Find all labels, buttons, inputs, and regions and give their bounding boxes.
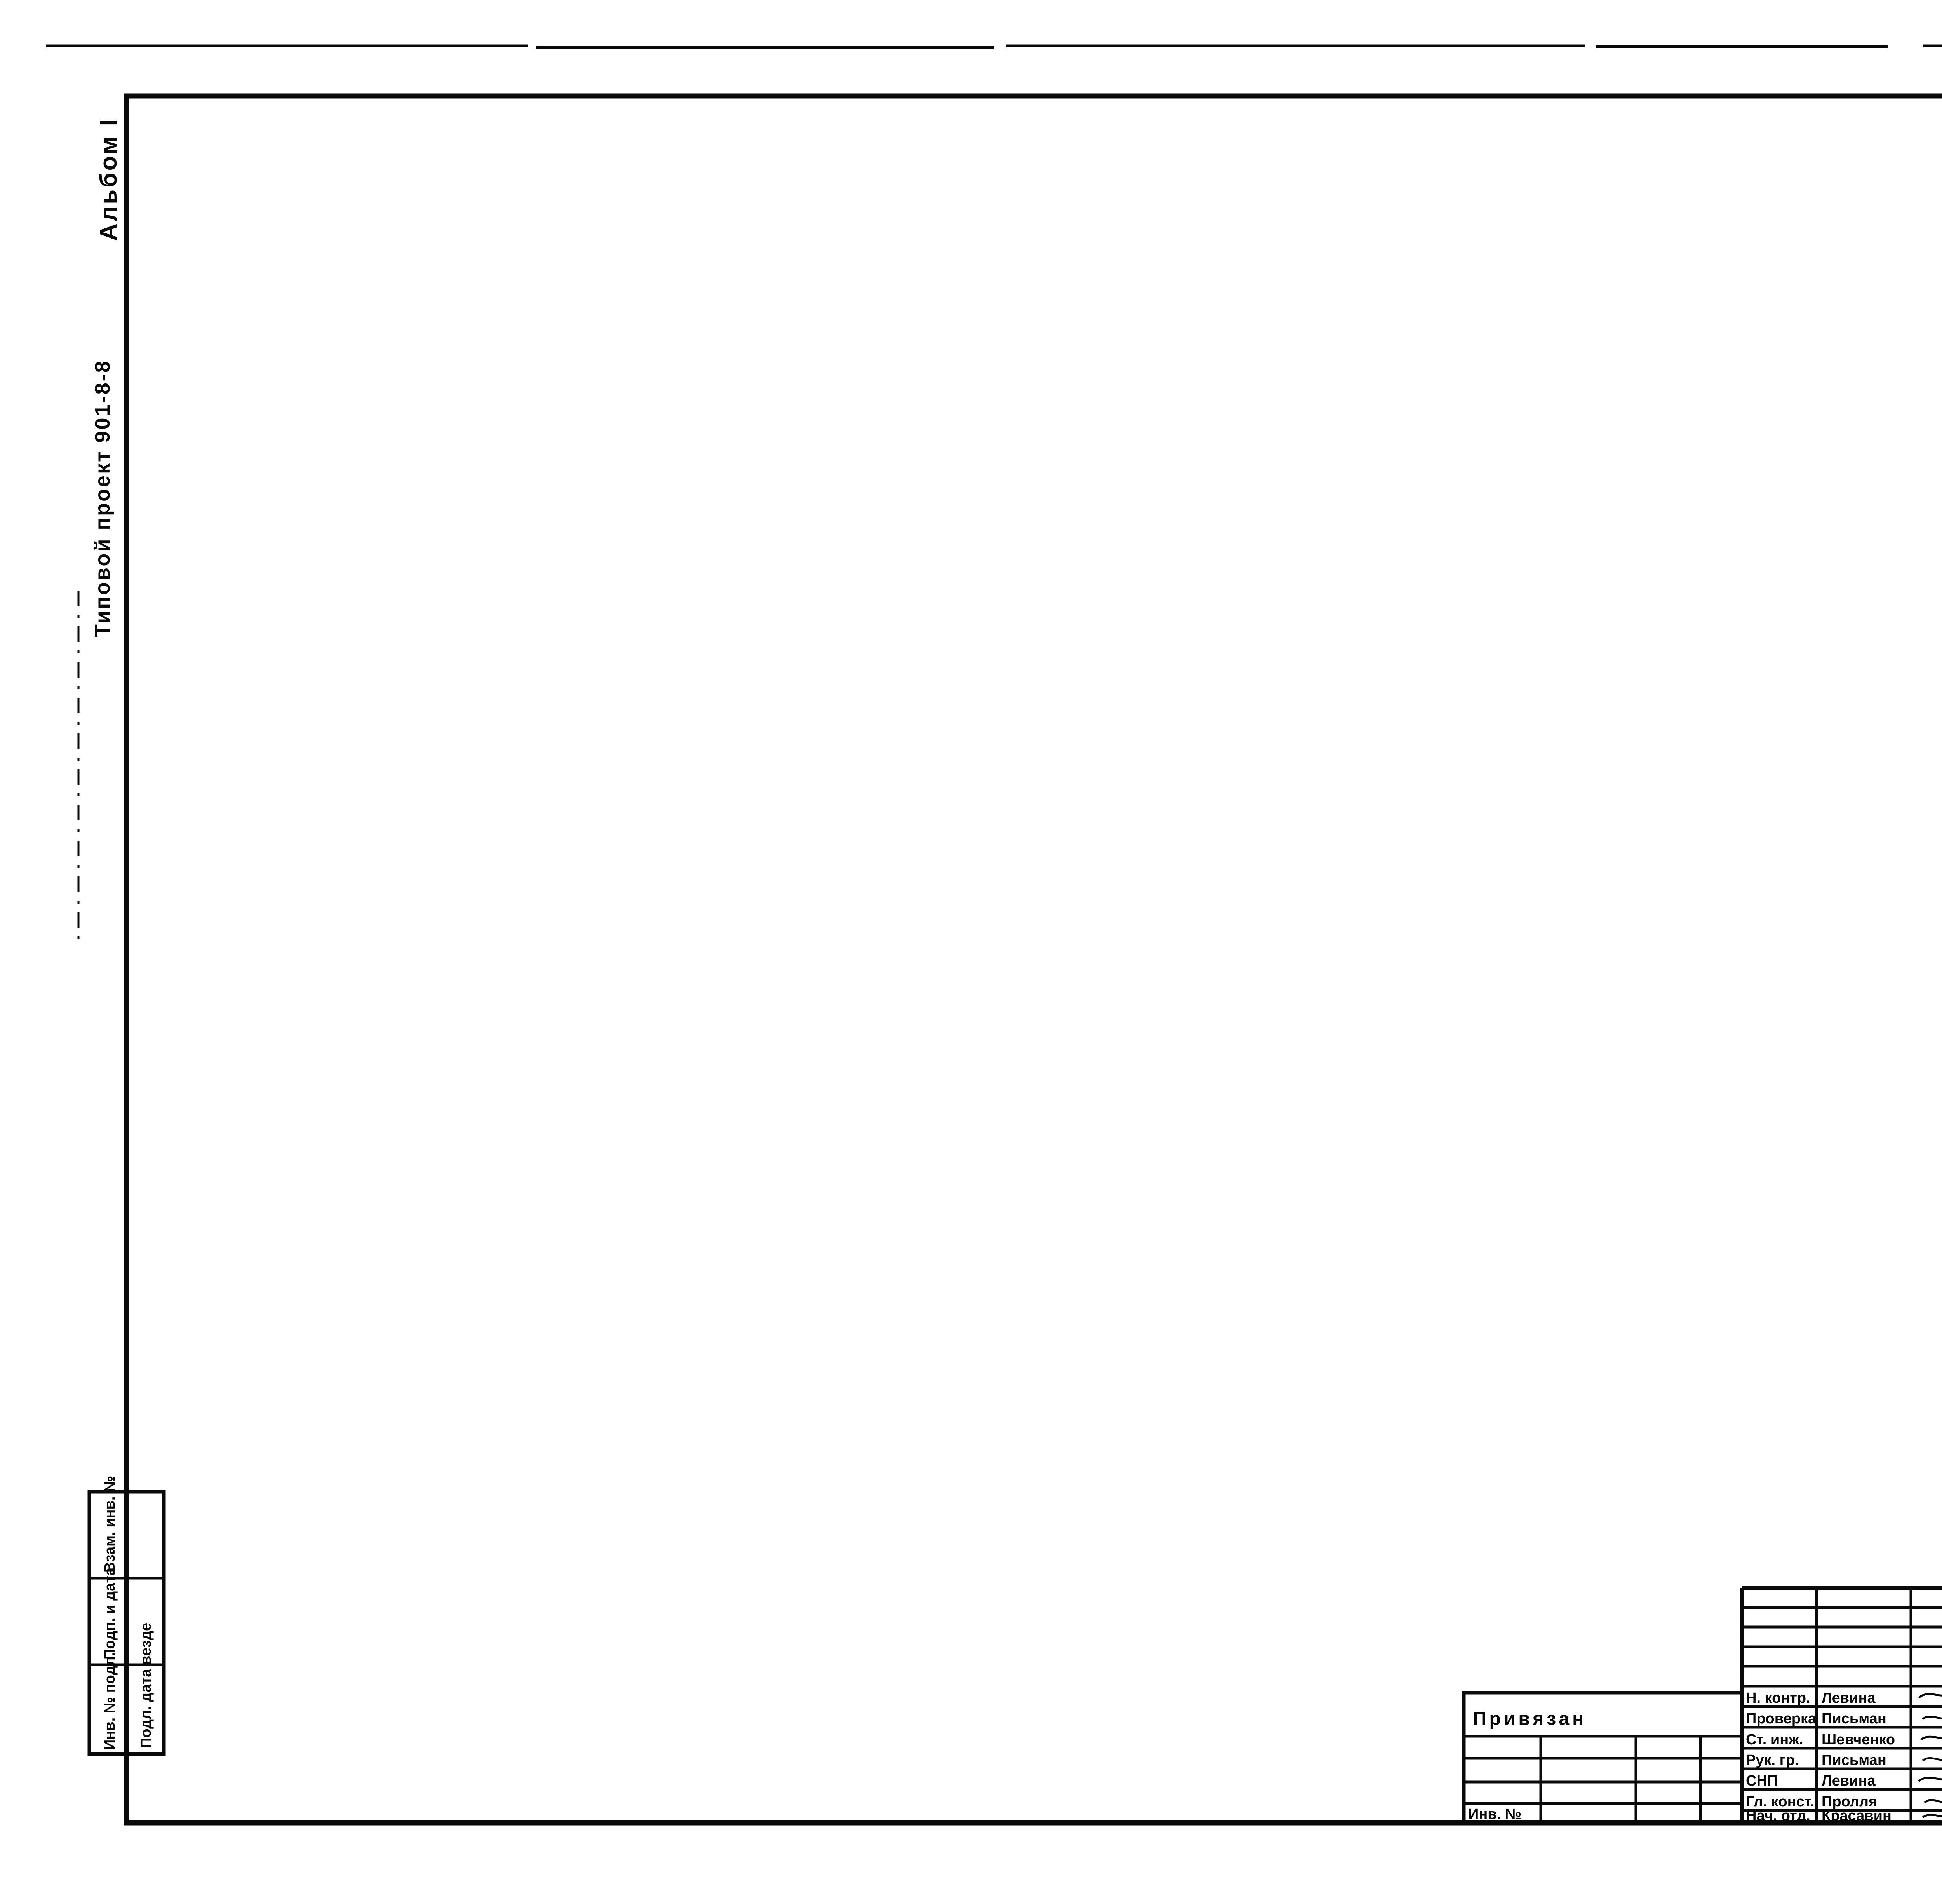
svg-text:Н. контр.: Н. контр.	[1746, 1690, 1810, 1706]
svg-text:Инв. №: Инв. №	[1468, 1806, 1521, 1822]
left margin dashed scan edge	[78, 591, 80, 944]
svg-text:Нач. отд.: Нач. отд.	[1746, 1808, 1810, 1824]
bottom-left stamp box	[89, 1476, 164, 1754]
svg-text:Красавин: Красавин	[1822, 1808, 1892, 1824]
signatures squiggles	[1919, 1690, 1942, 1817]
svg-text:Типовой проект 901-8-8: Типовой проект 901-8-8	[91, 359, 114, 637]
svg-text:Письман: Письман	[1822, 1711, 1886, 1727]
svg-text:Инв. № подл.: Инв. № подл.	[102, 1652, 118, 1750]
svg-text:Рук. гр.: Рук. гр.	[1746, 1752, 1799, 1768]
svg-text:Ст. инж.: Ст. инж.	[1746, 1732, 1803, 1748]
svg-text:Подп. и дата: Подп. и дата	[102, 1567, 118, 1660]
svg-text:Подл. дата везде: Подл. дата везде	[138, 1623, 154, 1748]
svg-text:Проверка: Проверка	[1746, 1711, 1817, 1727]
staff table grid	[1742, 1588, 1942, 1823]
svg-text:Левина: Левина	[1822, 1773, 1876, 1789]
svg-text:Письман: Письман	[1822, 1752, 1886, 1768]
svg-text:СНП: СНП	[1746, 1773, 1778, 1789]
svg-text:Взам. инв. №: Взам. инв. №	[102, 1476, 118, 1573]
svg-text:Привязан: Привязан	[1473, 1709, 1587, 1729]
svg-text:Левина: Левина	[1822, 1690, 1876, 1706]
left attach box	[1464, 1693, 1742, 1823]
TITLE BLOCK	[1464, 1588, 1942, 1825]
top ragged border line	[46, 46, 1942, 47]
svg-text:Альбом I: Альбом I	[95, 117, 122, 241]
svg-text:Шевченко: Шевченко	[1822, 1732, 1895, 1748]
